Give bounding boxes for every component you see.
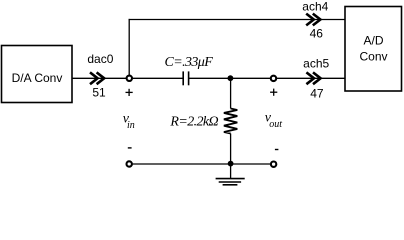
polarity + at vout top [270, 89, 277, 96]
polarity - at vin bottom [128, 147, 132, 149]
svg-text:R=2.2kΩ: R=2.2kΩ [169, 114, 218, 129]
node terminal (open) at dac0/vin top [127, 76, 132, 81]
polarity + at vin top [126, 89, 133, 96]
capacitor C plates [183, 71, 188, 85]
polarity - at vout bottom [275, 149, 279, 151]
resistor R zigzag [224, 109, 237, 134]
arrow ach5 [306, 72, 320, 84]
svg-text:dac0: dac0 [87, 52, 113, 66]
wire: capacitor right plate to A/D ach5 input [189, 77, 345, 79]
node terminal (open) at vin bottom [127, 161, 132, 166]
node terminal (open) at vout bottom [271, 162, 276, 167]
box A/D Conv [345, 7, 402, 92]
svg-text:D/A Conv: D/A Conv [12, 71, 63, 85]
wire: resistor top lead [230, 78, 232, 108]
junction node at capacitor/resistor [228, 75, 234, 81]
node terminal (open) at ach5/vout top [271, 76, 276, 81]
label v_out [265, 110, 283, 130]
svg-text:out: out [269, 119, 282, 130]
svg-text:47: 47 [310, 87, 324, 101]
box D/A Conv [2, 46, 73, 103]
wire: top rail to A/D ach4 input [129, 19, 345, 21]
svg-text:51: 51 [92, 86, 106, 100]
svg-text:C=.33μF: C=.33μF [165, 55, 214, 70]
arrow dac0 [90, 72, 104, 84]
ground [216, 179, 245, 185]
svg-text:ach4: ach4 [302, 0, 328, 13]
wire: vertical branch up from node [128, 19, 130, 78]
label v_in [123, 111, 135, 131]
svg-text:46: 46 [310, 27, 324, 41]
arrow ach4 [306, 14, 320, 26]
svg-text:Conv: Conv [359, 50, 387, 64]
wire: bottom rail [129, 163, 273, 165]
wire dac0: D/A output to node [73, 77, 184, 79]
wire: ground stem [230, 164, 232, 178]
svg-text:A/D: A/D [363, 34, 383, 48]
junction node at resistor/ground on bottom rail [228, 161, 234, 167]
svg-text:in: in [127, 120, 135, 131]
wire: resistor bottom lead [230, 134, 232, 165]
svg-text:ach5: ach5 [303, 56, 329, 70]
